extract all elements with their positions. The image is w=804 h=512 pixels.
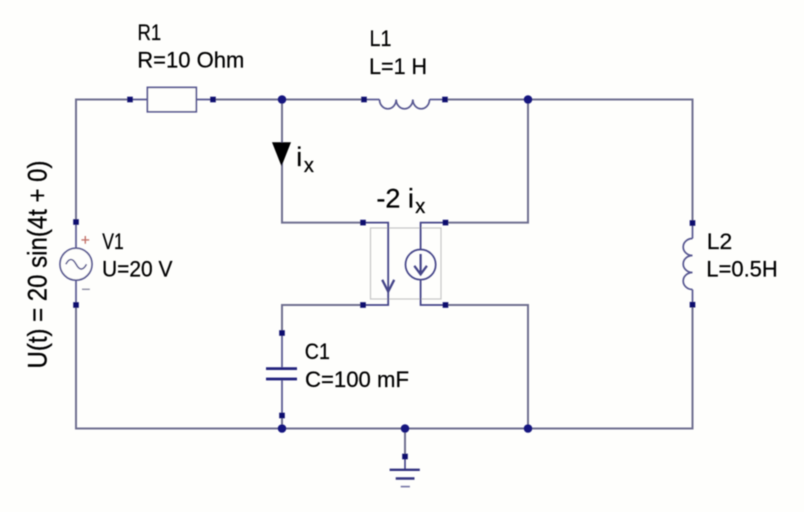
- svg-text:U=20 V: U=20 V: [102, 257, 173, 282]
- svg-text:x: x: [304, 155, 314, 177]
- svg-text:L=1 H: L=1 H: [369, 54, 427, 79]
- svg-text:C1: C1: [305, 339, 330, 364]
- svg-text:L=0.5H: L=0.5H: [706, 257, 778, 282]
- svg-text:V1: V1: [102, 229, 124, 254]
- svg-text:C=100 mF: C=100 mF: [305, 367, 409, 392]
- svg-text:x: x: [415, 196, 425, 218]
- svg-text:-2 i: -2 i: [376, 183, 414, 213]
- svg-text:i: i: [296, 142, 302, 172]
- svg-text:L1: L1: [370, 26, 392, 51]
- svg-text:R=10 Ohm: R=10 Ohm: [137, 47, 244, 72]
- svg-text:L2: L2: [707, 229, 732, 254]
- svg-text:R1: R1: [138, 20, 162, 45]
- svg-text:U(t) = 20 sin(4t + 0): U(t) = 20 sin(4t + 0): [22, 161, 52, 369]
